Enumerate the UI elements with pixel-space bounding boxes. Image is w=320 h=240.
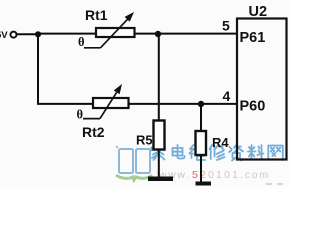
junction A [35, 31, 41, 37]
svg-text:P61: P61 [240, 30, 266, 46]
svg-text:5V: 5V [0, 30, 8, 41]
ground bar for R5 [148, 177, 173, 182]
watermark chinese text 网 [268, 146, 283, 161]
svg-text:R5: R5 [136, 133, 153, 148]
IC U2 outline [237, 19, 287, 160]
thermistor Rt2 arrow shaft [100, 92, 117, 118]
thermistor Rt1 body [96, 28, 135, 37]
thermistor Rt2 arrowhead [114, 84, 122, 94]
watermark chinese text 电 [173, 145, 185, 159]
resistor R4 body [196, 131, 207, 155]
svg-text:4: 4 [223, 88, 231, 104]
svg-text:0101: 0101 [208, 169, 240, 181]
svg-text:P60: P60 [240, 99, 266, 115]
wire junction C to U2 pin 4 [201, 103, 237, 105]
watermark chinese text 维 [190, 145, 206, 160]
watermark chinese text 料 [248, 145, 264, 160]
wire row2 junction A corner to Rt2 [37, 103, 93, 105]
watermark book green base [116, 175, 152, 180]
watermark chinese text 修 [210, 145, 225, 160]
svg-text:θ: θ [78, 35, 85, 49]
wire junction C down to R4 [200, 104, 202, 132]
watermark stray dashes bottom right [266, 183, 283, 185]
junction C [198, 101, 204, 107]
watermark book icon [116, 146, 153, 173]
watermark chinese text 家 [151, 145, 283, 161]
svg-text:5: 5 [192, 169, 200, 181]
wire junction A to Rt1 [38, 33, 96, 35]
wire 5V terminal to junction A [17, 33, 38, 35]
svg-text:R4: R4 [212, 135, 229, 150]
junction B [155, 31, 161, 37]
wire junction B to U2 pin 5 [158, 33, 237, 35]
thermistor Rt1 arrow shaft [101, 19, 128, 48]
wire Rt1 to junction B [135, 33, 159, 35]
wire Rt2 to junction C [129, 103, 202, 105]
thermistor Rt1 arrowhead [125, 12, 134, 22]
terminal circle at 5V [11, 32, 17, 38]
watermark url www.520101.com [158, 169, 270, 181]
wire junction B down to R5 [158, 34, 160, 121]
svg-text:5: 5 [222, 18, 230, 34]
svg-text:Rt1: Rt1 [85, 7, 108, 23]
svg-text:U2: U2 [249, 4, 268, 20]
watermark chinese text 资 [229, 145, 243, 161]
thermistor Rt2 foot line [83, 118, 100, 120]
thermistor Rt2 body [93, 98, 129, 108]
thermistor Rt1 foot line [84, 47, 101, 49]
resistor R5 body [154, 121, 165, 150]
svg-text:Rt2: Rt2 [82, 124, 105, 140]
ground bar for R4 [196, 182, 212, 186]
svg-text:.com: .com [240, 169, 270, 181]
svg-text:θ: θ [77, 108, 84, 122]
wire junction A down to row 2 [37, 34, 39, 104]
wire R4 to ground [200, 155, 202, 182]
wire R5 to ground [158, 150, 160, 178]
